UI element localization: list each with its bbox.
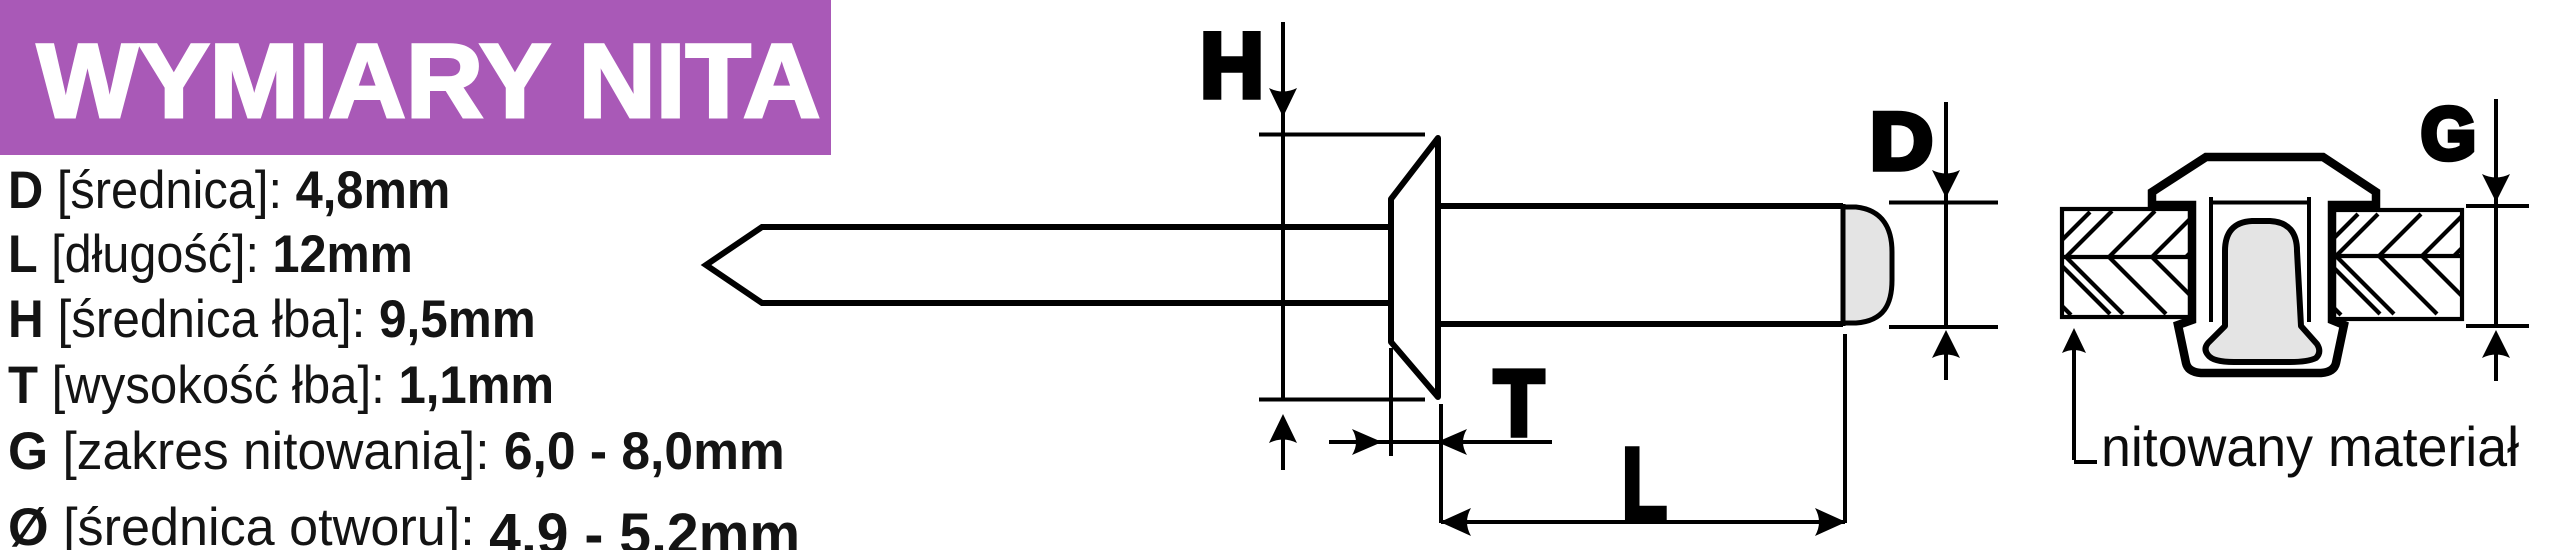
D arrow up [1944,352,1948,380]
svg-text:nitowany materiał: nitowany materiał [2101,415,2520,478]
D arrow down [1932,170,1960,198]
svg-text:G: G [2421,94,2476,175]
installed rivet sleeve (hat + walls + foot) [2152,157,2376,373]
body/cap separator [1841,204,1846,326]
H extension line bottom [1259,398,1425,402]
rivet body [1438,206,1843,324]
G arrow down [2482,174,2510,202]
H arrow up [1281,438,1285,470]
L arrow left [1440,508,1471,536]
G extension line bottom [2466,324,2529,328]
H arrow down [1269,88,1297,117]
svg-text:H: H [1200,15,1264,117]
L dimension line [1441,520,1845,524]
banner WYMIARY NITA [0,0,831,155]
sleeve bore lines [2211,197,2309,322]
L arrow right [1815,508,1846,536]
H extension line top [1259,133,1425,137]
T dimension line [1329,440,1552,444]
rivet mandrel pin [706,227,1391,303]
G arrow up [2494,352,2498,381]
spec list [8,160,450,221]
D dimension line [1944,102,1948,327]
rivet head flange [1391,138,1438,397]
H dimension line [1281,22,1285,400]
leader arrow to material [2074,334,2097,462]
G extension line top [2466,204,2529,208]
rivet dome end cap [1843,207,1892,323]
riveted material left plate [2062,209,2195,317]
riveted material right plate [2332,210,2462,319]
D extension line top [1889,201,1998,205]
svg-text:T: T [1494,351,1544,455]
T extension line (head right) [1439,404,1443,523]
T extension line (head left) [1389,348,1393,456]
T arrow right [1352,429,1382,455]
L extension line right [1843,334,1847,523]
T arrow left [1437,429,1467,455]
svg-text:L: L [1622,427,1667,542]
mandrel head (gray dome) [2206,221,2320,362]
svg-text:D: D [1870,97,1933,187]
D extension line bottom [1889,325,1998,329]
G dimension line [2494,99,2498,326]
